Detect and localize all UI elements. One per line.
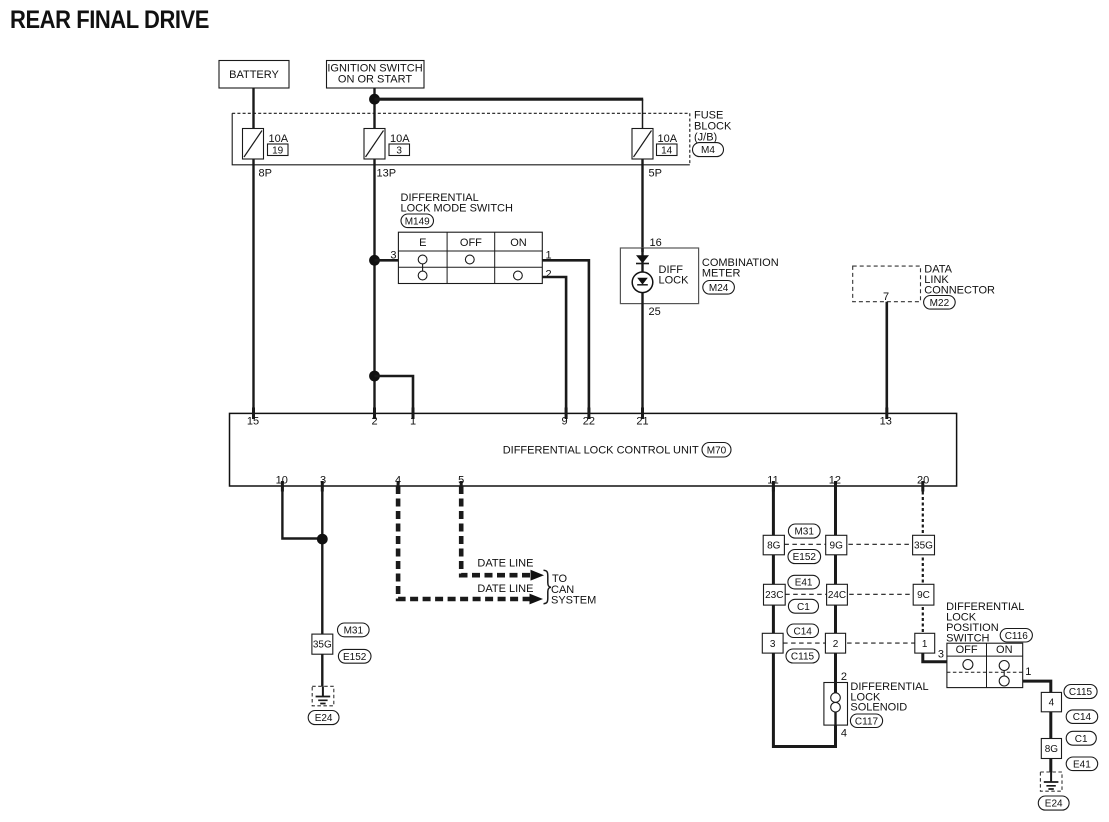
svg-text:4: 4 bbox=[841, 728, 847, 740]
control unit pin 2 bbox=[371, 408, 377, 428]
junction ignition feed bbox=[369, 94, 380, 105]
connector 4 (C115/C14) bbox=[1041, 692, 1061, 711]
control unit pin 3 bbox=[320, 475, 326, 492]
label DIFFERENTIAL LOCK POSITION SWITCH bbox=[946, 601, 1024, 645]
label COMBINATION METER bbox=[702, 257, 779, 280]
wire pin 4 CAN data line bbox=[398, 486, 531, 599]
fuse block (J/B) outline bbox=[232, 113, 690, 165]
svg-text:ON: ON bbox=[996, 644, 1013, 656]
svg-text:3: 3 bbox=[390, 250, 396, 262]
svg-text:C14: C14 bbox=[794, 626, 813, 637]
control unit pin 12 bbox=[829, 475, 841, 492]
connector 23C bbox=[764, 584, 786, 605]
connector E24 oval left bbox=[308, 711, 339, 725]
ground E24 right bbox=[1040, 772, 1062, 791]
svg-text:10A: 10A bbox=[269, 133, 289, 145]
battery bbox=[219, 61, 289, 89]
svg-text:E41: E41 bbox=[1073, 759, 1091, 770]
wire junction to mode switch pin 3 bbox=[375, 259, 399, 262]
svg-text:19: 19 bbox=[272, 145, 284, 156]
svg-text:SOLENOID: SOLENOID bbox=[850, 702, 907, 714]
label DATA LINK CONNECTOR bbox=[924, 264, 995, 297]
svg-text:E152: E152 bbox=[343, 652, 367, 663]
svg-text:1: 1 bbox=[922, 639, 928, 650]
svg-text:C115: C115 bbox=[791, 652, 815, 663]
svg-text:BATTERY: BATTERY bbox=[229, 69, 279, 81]
svg-text:CONNECTOR: CONNECTOR bbox=[924, 285, 995, 297]
svg-text:1: 1 bbox=[410, 416, 416, 428]
control unit pin 22 bbox=[583, 408, 595, 428]
svg-text:LOCK: LOCK bbox=[659, 275, 690, 287]
svg-text:ON OR START: ON OR START bbox=[338, 74, 412, 86]
connector E24 oval right bbox=[1038, 796, 1069, 810]
wire fuse 5P to combination meter pin 16 bbox=[641, 159, 643, 252]
wire junction to control unit pin 1 bbox=[375, 376, 414, 413]
connector M31 oval right bbox=[788, 524, 820, 538]
connector 2 bbox=[825, 633, 845, 653]
svg-text:15: 15 bbox=[247, 416, 259, 428]
label FUSE BLOCK (J/B) bbox=[694, 110, 732, 144]
junction ground wires bbox=[317, 534, 328, 545]
wire pin 10 to ground junction bbox=[282, 486, 322, 539]
svg-text:8G: 8G bbox=[1045, 744, 1059, 755]
svg-text:C116: C116 bbox=[1005, 631, 1029, 642]
fuse 10A [14] bbox=[632, 129, 678, 160]
svg-text:METER: METER bbox=[702, 268, 741, 280]
svg-text:22: 22 bbox=[583, 416, 595, 428]
fuse 10A [3] bbox=[364, 129, 410, 160]
svg-text:5: 5 bbox=[458, 475, 464, 487]
control unit pin 1 bbox=[410, 408, 416, 428]
svg-text:2: 2 bbox=[841, 671, 847, 683]
wire 35G to ground E24 bbox=[321, 654, 323, 687]
dashed link connector row 1 bbox=[784, 543, 912, 545]
svg-text:E24: E24 bbox=[315, 713, 333, 724]
wire connector 4 to connector 8G bbox=[1049, 712, 1052, 739]
svg-text:10A: 10A bbox=[390, 133, 410, 145]
svg-text:4: 4 bbox=[395, 475, 401, 487]
svg-text:C14: C14 bbox=[1073, 712, 1092, 723]
connector M31 oval left bbox=[338, 623, 370, 637]
connector 24C bbox=[827, 584, 848, 605]
wire pin 11 to solenoid pin 4 bbox=[773, 486, 835, 747]
connector C1 oval col bbox=[1066, 731, 1096, 745]
svg-text:23C: 23C bbox=[765, 590, 783, 601]
wire pin 5 CAN data line bbox=[461, 486, 532, 575]
connector 8G bbox=[763, 535, 784, 555]
connector E41 oval col bbox=[1066, 757, 1098, 771]
connector 9C bbox=[913, 584, 934, 605]
svg-text:E41: E41 bbox=[795, 578, 813, 589]
svg-text:9G: 9G bbox=[830, 541, 844, 552]
connector C116 oval bbox=[1000, 629, 1032, 643]
wire mode switch pin 2 to control unit pin 9 bbox=[542, 277, 566, 413]
svg-text:3: 3 bbox=[320, 475, 326, 487]
differential lock solenoid C117 bbox=[824, 683, 848, 726]
wire pin 20 to connector 1 bbox=[922, 486, 924, 653]
connector C115 oval col bbox=[1064, 685, 1097, 699]
svg-text:M31: M31 bbox=[344, 625, 364, 636]
svg-text:2: 2 bbox=[371, 416, 377, 428]
control unit pin 10 bbox=[276, 475, 288, 492]
wire connector 1 to position switch pin 3 bbox=[923, 651, 947, 662]
svg-text:8P: 8P bbox=[259, 168, 272, 180]
svg-text:3: 3 bbox=[396, 145, 402, 156]
connector C115 oval right bbox=[786, 649, 819, 663]
svg-text:13P: 13P bbox=[377, 168, 397, 180]
svg-text:13: 13 bbox=[880, 416, 892, 428]
svg-text:24C: 24C bbox=[828, 590, 846, 601]
svg-text:4: 4 bbox=[1049, 698, 1055, 709]
wire pin 12 to solenoid pin 2 bbox=[834, 486, 837, 693]
ground E24 left bbox=[312, 686, 334, 706]
label DIFFERENTIAL LOCK SOLENOID bbox=[850, 681, 928, 714]
differential lock position switch C116 bbox=[947, 643, 1023, 687]
svg-text:10A: 10A bbox=[658, 133, 678, 145]
differential lock control unit M70 bbox=[230, 413, 957, 486]
brace to CAN system bbox=[544, 570, 552, 603]
connector C14 oval col bbox=[1066, 710, 1098, 724]
DIFF LOCK lamp bbox=[632, 272, 653, 293]
connector M24 bbox=[703, 281, 735, 295]
dashed link connector row 3 bbox=[783, 642, 915, 644]
title REAR FINAL DRIVE bbox=[10, 6, 209, 34]
label DIFFERENTIAL LOCK MODE SWITCH bbox=[401, 192, 514, 215]
connector M4 bbox=[693, 143, 724, 157]
wire position switch pin 1 to connector 4 bbox=[1023, 681, 1051, 692]
svg-text:M149: M149 bbox=[405, 216, 430, 227]
svg-text:M24: M24 bbox=[709, 283, 729, 294]
svg-text:C1: C1 bbox=[1075, 734, 1088, 745]
svg-text:20: 20 bbox=[917, 475, 929, 487]
connector 9G bbox=[826, 535, 847, 555]
svg-text:DATE LINE: DATE LINE bbox=[477, 558, 533, 570]
indicator diode bbox=[636, 255, 649, 263]
connector 1 bbox=[915, 633, 935, 653]
connector M149 bbox=[401, 214, 434, 228]
svg-text:OFF: OFF bbox=[956, 644, 978, 656]
connector C14 oval right bbox=[787, 624, 819, 638]
svg-text:2: 2 bbox=[833, 639, 839, 650]
control unit pin 15 bbox=[247, 408, 259, 428]
control unit pin 20 bbox=[917, 475, 929, 492]
wire pin 3 to connector 35G bbox=[321, 486, 323, 634]
svg-text:C117: C117 bbox=[855, 716, 879, 727]
svg-text:10: 10 bbox=[276, 475, 288, 487]
svg-text:(J/B): (J/B) bbox=[694, 132, 717, 144]
svg-text:9C: 9C bbox=[917, 590, 930, 601]
wire battery to fuse 19 bbox=[252, 88, 254, 129]
connector 3 bbox=[762, 633, 783, 653]
connector C117 oval bbox=[850, 714, 882, 728]
arrowhead CAN line pin4 bbox=[530, 594, 544, 605]
svg-text:1: 1 bbox=[1025, 666, 1031, 678]
svg-text:REAR FINAL DRIVE: REAR FINAL DRIVE bbox=[10, 6, 209, 34]
connector C1 oval right bbox=[788, 599, 818, 613]
svg-text:ON: ON bbox=[510, 237, 527, 249]
connector 35G (M31/E152) bbox=[312, 634, 333, 654]
svg-text:7: 7 bbox=[883, 291, 889, 303]
wire connector 8G to ground E24 right bbox=[1049, 759, 1052, 773]
svg-text:16: 16 bbox=[650, 237, 662, 249]
svg-text:2: 2 bbox=[546, 269, 552, 281]
arrowhead CAN line pin5 bbox=[531, 570, 545, 581]
svg-text:E152: E152 bbox=[793, 552, 817, 563]
svg-text:3: 3 bbox=[938, 649, 944, 661]
svg-text:M4: M4 bbox=[701, 145, 715, 156]
control unit pin 9 bbox=[561, 408, 567, 428]
control unit pin 11 bbox=[767, 475, 778, 492]
svg-text:21: 21 bbox=[636, 416, 648, 428]
wire DLC pin 7 to control unit pin 13 bbox=[885, 302, 888, 414]
wire fuse 8P to control unit pin 15 bbox=[252, 159, 254, 413]
wire inside meter bbox=[641, 248, 643, 304]
label TO CAN SYSTEM bbox=[551, 573, 596, 606]
svg-text:E: E bbox=[419, 237, 426, 249]
ignition switch box bbox=[327, 61, 425, 89]
svg-text:5P: 5P bbox=[649, 168, 662, 180]
svg-text:3: 3 bbox=[770, 639, 776, 650]
junction to control unit pin 1 bbox=[369, 371, 380, 382]
connector M70 bbox=[702, 443, 731, 458]
svg-text:OFF: OFF bbox=[460, 237, 482, 249]
wire feed to fuse 14 bbox=[375, 99, 644, 129]
svg-text:35G: 35G bbox=[313, 640, 332, 651]
differential lock mode switch M149 bbox=[398, 232, 542, 283]
svg-text:11: 11 bbox=[767, 475, 778, 487]
connector 35G right bbox=[913, 535, 935, 555]
wire ignition switch to fuse 3 bbox=[373, 88, 375, 129]
svg-text:E24: E24 bbox=[1045, 799, 1063, 810]
svg-text:C1: C1 bbox=[797, 602, 810, 613]
svg-text:14: 14 bbox=[661, 145, 673, 156]
data link connector box bbox=[853, 266, 921, 303]
connector E41 oval right bbox=[788, 575, 820, 589]
svg-text:12: 12 bbox=[829, 475, 841, 487]
svg-text:25: 25 bbox=[649, 306, 661, 318]
svg-text:LOCK MODE SWITCH: LOCK MODE SWITCH bbox=[401, 203, 514, 215]
wire fuse 13P to control unit pin 2 bbox=[373, 159, 375, 413]
svg-text:M70: M70 bbox=[707, 445, 727, 456]
junction to mode switch pin 3 bbox=[369, 255, 380, 266]
svg-text:C115: C115 bbox=[1069, 687, 1093, 698]
combination meter box bbox=[620, 248, 698, 304]
control unit pin 5 bbox=[458, 475, 464, 492]
connector E152 oval right bbox=[788, 550, 821, 564]
svg-text:8G: 8G bbox=[767, 541, 781, 552]
control unit pin 13 bbox=[880, 408, 892, 428]
connector E152 oval left bbox=[338, 649, 371, 663]
svg-text:35G: 35G bbox=[914, 541, 933, 552]
svg-text:SYSTEM: SYSTEM bbox=[551, 594, 596, 606]
connector 8G (C1/E41) bbox=[1041, 739, 1061, 759]
svg-text:9: 9 bbox=[561, 416, 567, 428]
wire mode switch pin 1 to control unit pin 22 bbox=[542, 260, 589, 413]
wire meter pin 25 to control unit pin 21 bbox=[641, 304, 643, 414]
svg-text:M22: M22 bbox=[930, 298, 950, 309]
control unit pin 4 bbox=[395, 475, 401, 492]
dashed link connector row 2 bbox=[785, 593, 913, 595]
svg-text:M31: M31 bbox=[794, 527, 814, 538]
connector M22 bbox=[924, 296, 956, 310]
label DIFF LOCK bbox=[659, 264, 690, 287]
fuse 10A [19] bbox=[243, 129, 289, 160]
control unit pin 21 bbox=[636, 408, 648, 428]
svg-text:DIFFERENTIAL LOCK CONTROL UNIT: DIFFERENTIAL LOCK CONTROL UNIT bbox=[503, 445, 699, 457]
svg-text:DATE LINE: DATE LINE bbox=[477, 583, 533, 595]
